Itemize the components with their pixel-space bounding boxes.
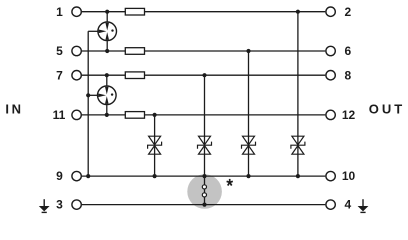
svg-text:8: 8 [344, 68, 351, 82]
svg-text:10: 10 [342, 169, 356, 183]
svg-text:3: 3 [56, 198, 63, 212]
svg-text:12: 12 [342, 108, 356, 122]
svg-text:OUT: OUT [369, 102, 402, 117]
svg-text:7: 7 [56, 68, 63, 82]
svg-text:5: 5 [56, 44, 63, 58]
svg-text:6: 6 [344, 44, 351, 58]
svg-text:11: 11 [53, 108, 66, 122]
svg-text:9: 9 [56, 169, 63, 183]
svg-text:IN: IN [5, 102, 21, 117]
svg-text:1: 1 [56, 5, 63, 19]
svg-text:4: 4 [344, 198, 351, 212]
svg-text:2: 2 [344, 5, 351, 19]
